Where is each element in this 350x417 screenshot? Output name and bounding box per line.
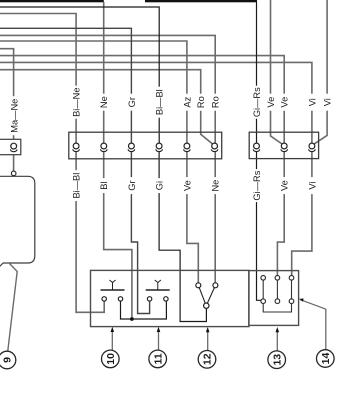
svg-text:Ve: Ve — [266, 97, 276, 108]
svg-text:Ma—Ne: Ma—Ne — [9, 99, 19, 133]
svg-text:Bi—Bl: Bi—Bl — [72, 173, 82, 199]
svg-text:Gi—Rs: Gi—Rs — [252, 170, 262, 200]
svg-text:Ve: Ve — [280, 180, 290, 191]
svg-text:Gi: Gi — [155, 181, 165, 190]
svg-text:Az: Az — [182, 96, 192, 107]
svg-text:Ro: Ro — [196, 96, 206, 108]
svg-text:9: 9 — [2, 357, 14, 363]
svg-text:Gr: Gr — [127, 180, 137, 190]
svg-text:13: 13 — [271, 354, 283, 366]
svg-text:Ro: Ro — [211, 96, 221, 108]
svg-text:Vi: Vi — [307, 98, 317, 106]
svg-text:Bi—Bl: Bi—Bl — [155, 89, 165, 115]
svg-text:Vi: Vi — [307, 182, 317, 190]
svg-text:Bi—Ne: Bi—Ne — [72, 87, 82, 116]
svg-text:Ne: Ne — [99, 96, 109, 108]
svg-text:Ne: Ne — [211, 180, 221, 192]
svg-text:Vi: Vi — [323, 98, 333, 106]
svg-text:14: 14 — [320, 353, 332, 365]
svg-text:11: 11 — [152, 353, 164, 364]
svg-text:12: 12 — [202, 353, 214, 365]
svg-text:Ve: Ve — [182, 180, 192, 191]
svg-text:Bl: Bl — [99, 181, 109, 189]
svg-text:Gi—Rs: Gi—Rs — [252, 87, 262, 117]
svg-text:10: 10 — [105, 353, 117, 365]
svg-text:Ve: Ve — [280, 97, 290, 108]
svg-text:Gr: Gr — [127, 97, 137, 107]
